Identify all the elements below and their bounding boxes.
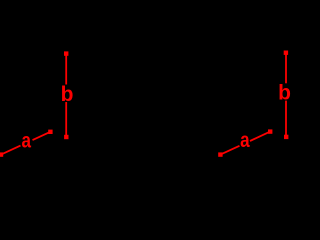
wire: right a-line segment 2 [250, 132, 270, 141]
wire: left a-line segment 1 [1, 146, 21, 155]
wire: left b-line segment 1 [65, 54, 67, 85]
node: left b bottom dot [64, 135, 68, 139]
vector a (right lattice vector), wire [220, 132, 270, 155]
node: left a tail dot [0, 152, 3, 156]
wire: right a-line segment 1 [220, 146, 239, 155]
svg-text:b: b [61, 83, 74, 106]
svg-text:a: a [240, 129, 250, 152]
vector b (left lattice vector), wire [65, 54, 67, 137]
node: right a tail dot [218, 152, 222, 156]
node: right b bottom dot [284, 135, 288, 139]
node: right a tip dot [268, 129, 272, 133]
node: left a tip dot [48, 130, 52, 134]
vector b (right lattice vector), wire [285, 53, 287, 137]
wire: right b-line segment 1 [285, 53, 287, 84]
vector a (left lattice vector), wire [1, 132, 50, 155]
node: left b top dot [64, 51, 68, 55]
svg-text:a: a [21, 130, 31, 153]
wire: left b-line segment 2 [65, 102, 67, 137]
svg-text:b: b [278, 81, 291, 104]
node: right b top dot [284, 51, 288, 55]
wire: right b-line segment 2 [285, 101, 287, 137]
wire: left a-line segment 2 [33, 132, 51, 140]
